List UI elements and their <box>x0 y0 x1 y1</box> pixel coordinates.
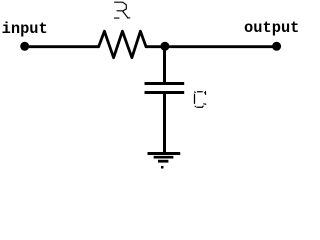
node input (dot) <box>20 42 29 51</box>
capacitor C1 bottom plate <box>145 91 185 94</box>
ground bar 3 <box>158 160 168 163</box>
label input <box>2 20 48 38</box>
resistor R1 zigzag <box>99 31 146 58</box>
wire resistor to output <box>146 45 277 48</box>
ground bar 1 <box>148 152 181 155</box>
label output <box>244 19 299 37</box>
wire input to resistor <box>25 45 99 48</box>
label R <box>114 2 129 18</box>
capacitor C1 top plate <box>145 82 185 85</box>
node junction (dot) <box>160 42 169 51</box>
ground bar 2 <box>154 156 174 159</box>
label C <box>195 92 206 107</box>
wire capacitor to ground <box>163 94 166 154</box>
wire junction to capacitor <box>163 46 166 82</box>
ground tick <box>161 166 164 169</box>
node output (dot) <box>272 42 281 51</box>
